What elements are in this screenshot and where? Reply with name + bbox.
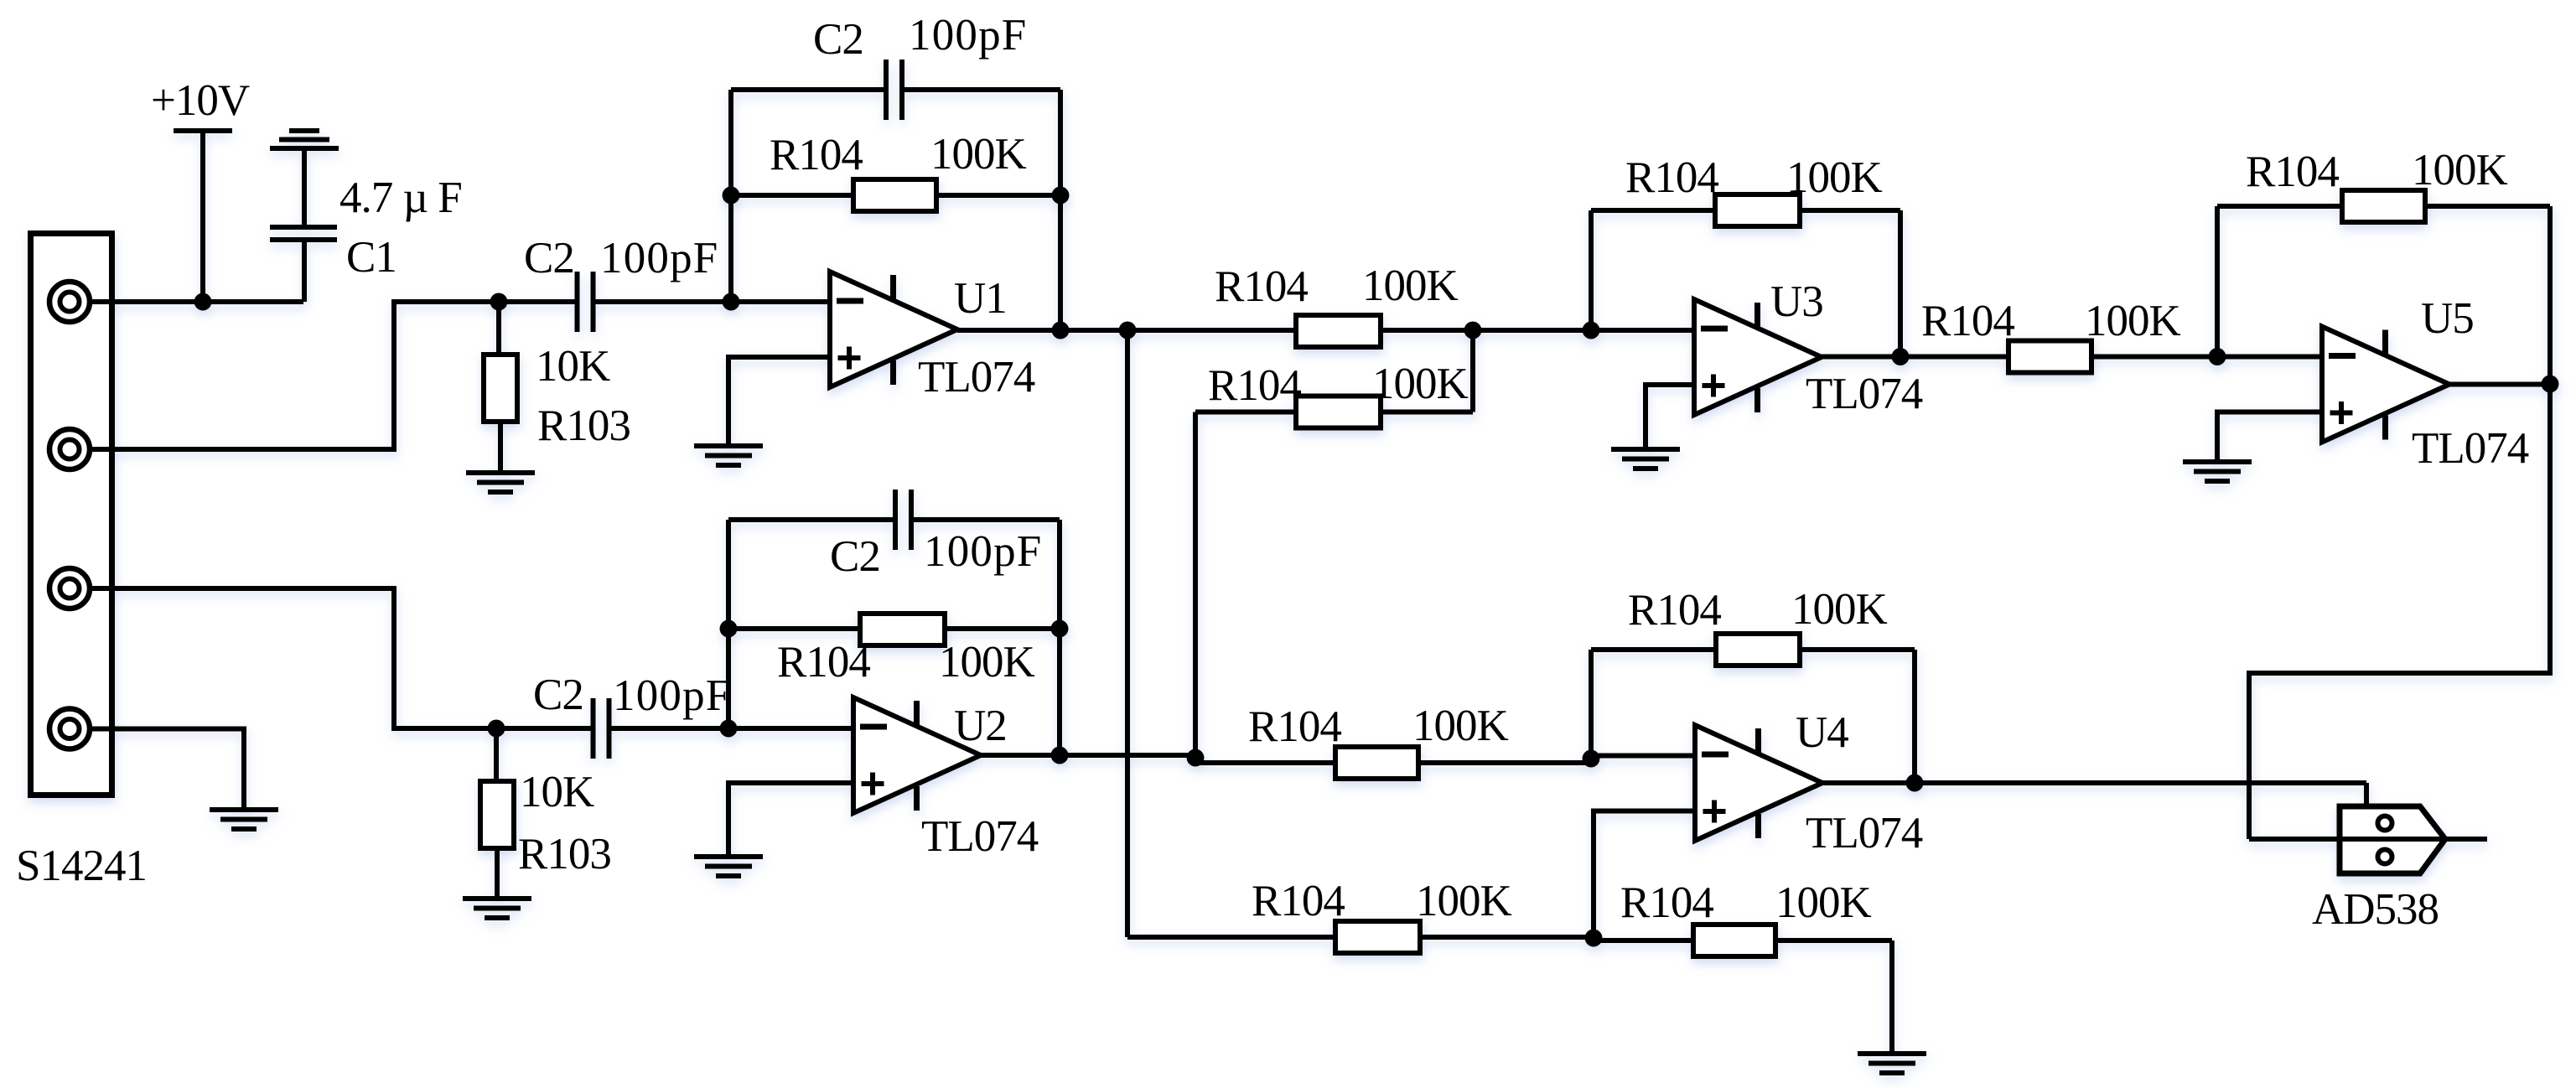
AD538 pin circle lower (2378, 850, 2392, 864)
svg-text:R103: R103 (518, 830, 611, 878)
wire U3 output rail right (2091, 355, 2322, 360)
svg-text:100K: 100K (1416, 877, 1512, 925)
node dot R103/C2 input U2 (488, 720, 505, 738)
ground (U3 noninv) (1611, 447, 1680, 452)
svg-text:TL074: TL074 (918, 353, 1035, 402)
resistor R103 (upper 10K) (496, 302, 501, 355)
node dot fb R104 left U2 (720, 620, 738, 638)
op-amp U1 (830, 272, 957, 387)
wire U5 fb left vertical (2215, 206, 2220, 357)
wire bottom rail right (1775, 938, 1892, 943)
wire U2 fb right vertical (1057, 520, 1062, 755)
wire U1 fb right vertical (1058, 90, 1063, 330)
resistor R104 fb U3 (1591, 208, 1715, 213)
wire U2 fb left vertical (726, 520, 731, 728)
wire U1 output rail right (1381, 328, 1694, 333)
svg-text:C2: C2 (830, 532, 880, 581)
connector pin 1 (49, 282, 90, 322)
svg-text:C2: C2 (524, 234, 574, 282)
node dot U3 out fb (1892, 348, 1910, 365)
svg-text:TL074: TL074 (2412, 424, 2529, 473)
wire vertical 1426 down (1193, 412, 1198, 759)
svg-text:10K: 10K (536, 342, 610, 391)
wire U1 output rail (957, 328, 1296, 333)
wire U1 inv input stub (731, 299, 830, 304)
node dot U1 out fb (1052, 322, 1070, 339)
wire U3 fb right vertical (1898, 210, 1903, 357)
wire U5 output (2449, 382, 2550, 387)
svg-text:U5: U5 (2421, 294, 2474, 343)
node dot fb R104 left U1 (723, 187, 740, 205)
op-amp U5 (2322, 327, 2449, 443)
resistor R103 (lower 10K) (494, 728, 499, 781)
svg-text:R104: R104 (1215, 262, 1308, 311)
node dot bottom rail (1585, 930, 1603, 947)
node dot rail490 tap (1187, 749, 1205, 767)
node dot U1 out tap (1119, 322, 1137, 339)
ground (R103 upper) (466, 470, 535, 475)
svg-text:100K: 100K (1786, 153, 1883, 202)
svg-text:U3: U3 (1770, 277, 1823, 326)
wire U5 out down-left to AD538 (2249, 384, 2550, 839)
svg-text:4.7 µ F: 4.7 µ F (339, 174, 462, 222)
ground (U5 noninv) (2183, 459, 2252, 464)
wire U4 fb right vertical (1912, 650, 1917, 783)
wire U2 noninv input (728, 783, 853, 857)
connector S14241 (31, 234, 112, 795)
wire bottom rail mid (1420, 935, 1594, 940)
svg-text:R103: R103 (537, 402, 630, 450)
svg-text:U2: U2 (954, 702, 1007, 750)
resistor R104 U2-U4 (1335, 747, 1418, 779)
wire U2 output rail mid (1195, 760, 1335, 765)
connector pin 4 (49, 709, 90, 749)
wire pin3 jog (90, 588, 496, 728)
svg-text:100pF: 100pF (613, 671, 731, 720)
svg-text:100K: 100K (1775, 878, 1872, 927)
svg-text:AD538: AD538 (2312, 885, 2439, 934)
wire U1 fb left vertical (728, 90, 733, 302)
node dot summing U3 (1464, 322, 1482, 339)
ground (pin4) (210, 807, 278, 812)
svg-text:100K: 100K (930, 130, 1027, 179)
power +10V symbol (174, 128, 232, 133)
svg-text:+10V: +10V (151, 76, 250, 125)
wire U4 out down to AD538 (2364, 783, 2369, 809)
svg-text:100K: 100K (1372, 360, 1469, 408)
wire U2 output rail (977, 753, 1195, 758)
wire U4 noninv input (1594, 811, 1695, 937)
wire bottom right down (1889, 940, 1894, 1054)
svg-text:R104: R104 (1628, 586, 1721, 635)
svg-text:100pF: 100pF (909, 11, 1027, 60)
ground (U1 noninv) (694, 443, 763, 448)
node dot U2 inv input (720, 720, 738, 738)
wire pin4 (90, 729, 244, 811)
node dot U5 inv node (2209, 348, 2226, 365)
svg-text:100pF: 100pF (924, 527, 1042, 576)
op-amp U2 (853, 697, 981, 813)
svg-text:100K: 100K (1362, 262, 1459, 310)
op-amp U4 (1695, 725, 1822, 841)
ground (R103 lower) (463, 896, 531, 901)
wire U4 inv stub (1591, 754, 1695, 759)
resistor R104 fb U5 (2217, 204, 2342, 209)
svg-text:R104: R104 (770, 131, 863, 179)
resistor R104 bottom left (1335, 921, 1420, 953)
wire U5 fb right vertical (2547, 206, 2553, 384)
svg-text:R104: R104 (1248, 702, 1341, 751)
wire U3 output rail (1822, 355, 2008, 360)
wire U2 inv input stub (728, 726, 853, 731)
node dot U1 inv input (723, 293, 740, 311)
svg-text:R104: R104 (1921, 297, 2014, 345)
svg-text:100K: 100K (1412, 702, 1509, 750)
capacitor C1 (302, 151, 307, 225)
node dot R103/C2 input U1 (490, 293, 508, 311)
wire U2 output rail right (1418, 760, 1591, 765)
node dot U5 output (2542, 376, 2559, 393)
wire rail 490 (1195, 410, 1296, 415)
node dot +10V (194, 293, 212, 311)
svg-text:R104: R104 (2246, 148, 2339, 196)
capacitor C2 feedback U1 (731, 87, 884, 92)
svg-text:S14241: S14241 (16, 842, 147, 890)
svg-text:TL074: TL074 (1806, 370, 1923, 418)
multiplier AD538 (2340, 806, 2445, 873)
wire U1 tap long vertical (1125, 330, 1130, 937)
wire U5 noninv input (2217, 412, 2322, 463)
svg-text:TL074: TL074 (921, 812, 1039, 861)
svg-text:100K: 100K (939, 638, 1035, 686)
svg-text:R104: R104 (1625, 153, 1718, 202)
capacitor C2 feedback U2 (728, 517, 893, 522)
wire U4 fb left vertical (1589, 650, 1594, 759)
node dot U4 output (1906, 775, 1924, 792)
svg-text:U4: U4 (1796, 708, 1848, 757)
AD538 pin circle upper (2378, 816, 2392, 831)
svg-text:C2: C2 (533, 671, 583, 719)
node dot fb R104 right U1 (1052, 187, 1070, 205)
svg-text:C2: C2 (813, 15, 863, 64)
node dot U4 fb tap (1583, 750, 1600, 768)
svg-text:R104: R104 (1252, 877, 1345, 925)
node dot U3 fb tap (1583, 322, 1600, 339)
connector pin 3 (49, 568, 90, 609)
capacitor C2 coupling U2 (496, 726, 591, 731)
resistor R104 fb U4 (1591, 647, 1716, 652)
wire U1 noninv input (728, 357, 830, 446)
svg-text:U1: U1 (954, 274, 1007, 323)
resistor R104 U3-U5 (2008, 341, 2091, 373)
wire AD538 mid line (2249, 837, 2487, 842)
svg-text:C1: C1 (346, 233, 397, 282)
svg-text:10K: 10K (520, 768, 594, 816)
svg-text:R104: R104 (1620, 878, 1713, 927)
ground (bottom R104) (1858, 1051, 1926, 1056)
resistor R104 fb U1 (731, 193, 853, 198)
svg-text:100pF: 100pF (600, 234, 718, 282)
svg-text:100K: 100K (2085, 297, 2181, 345)
wire U3 noninv input (1646, 385, 1694, 449)
svg-text:100K: 100K (2412, 146, 2508, 194)
node dot fb R104 right U2 (1051, 620, 1069, 638)
svg-text:TL074: TL074 (1806, 809, 1923, 857)
capacitor C2 coupling U1 (499, 299, 575, 304)
op-amp U3 (1694, 299, 1822, 415)
wire vertical 1757 up (1470, 330, 1475, 412)
wire rail 490 right (1381, 410, 1473, 415)
node dot U2 out fb (1051, 747, 1069, 764)
wire bottom rail mid right (1594, 938, 1693, 943)
wire U3 fb left vertical (1589, 210, 1594, 330)
wire pin2 jog (90, 302, 499, 449)
ground (top of C1, flipped) (270, 146, 339, 151)
connector pin 2 (49, 429, 90, 469)
wire bottom rail (1127, 935, 1335, 940)
resistor R104 U2-U3 (1296, 396, 1381, 428)
svg-text:100K: 100K (1791, 585, 1888, 634)
resistor R104 fb U2 (728, 626, 860, 631)
wire U4 output rail (1822, 780, 2366, 785)
svg-text:R104: R104 (1208, 361, 1301, 410)
resistor R104 bottom right (1693, 925, 1775, 956)
wire pin1 to C1 node (90, 299, 303, 304)
svg-text:R104: R104 (777, 638, 870, 686)
resistor R104 U1-U3 (1296, 315, 1381, 347)
ground (U2 noninv) (694, 854, 763, 859)
